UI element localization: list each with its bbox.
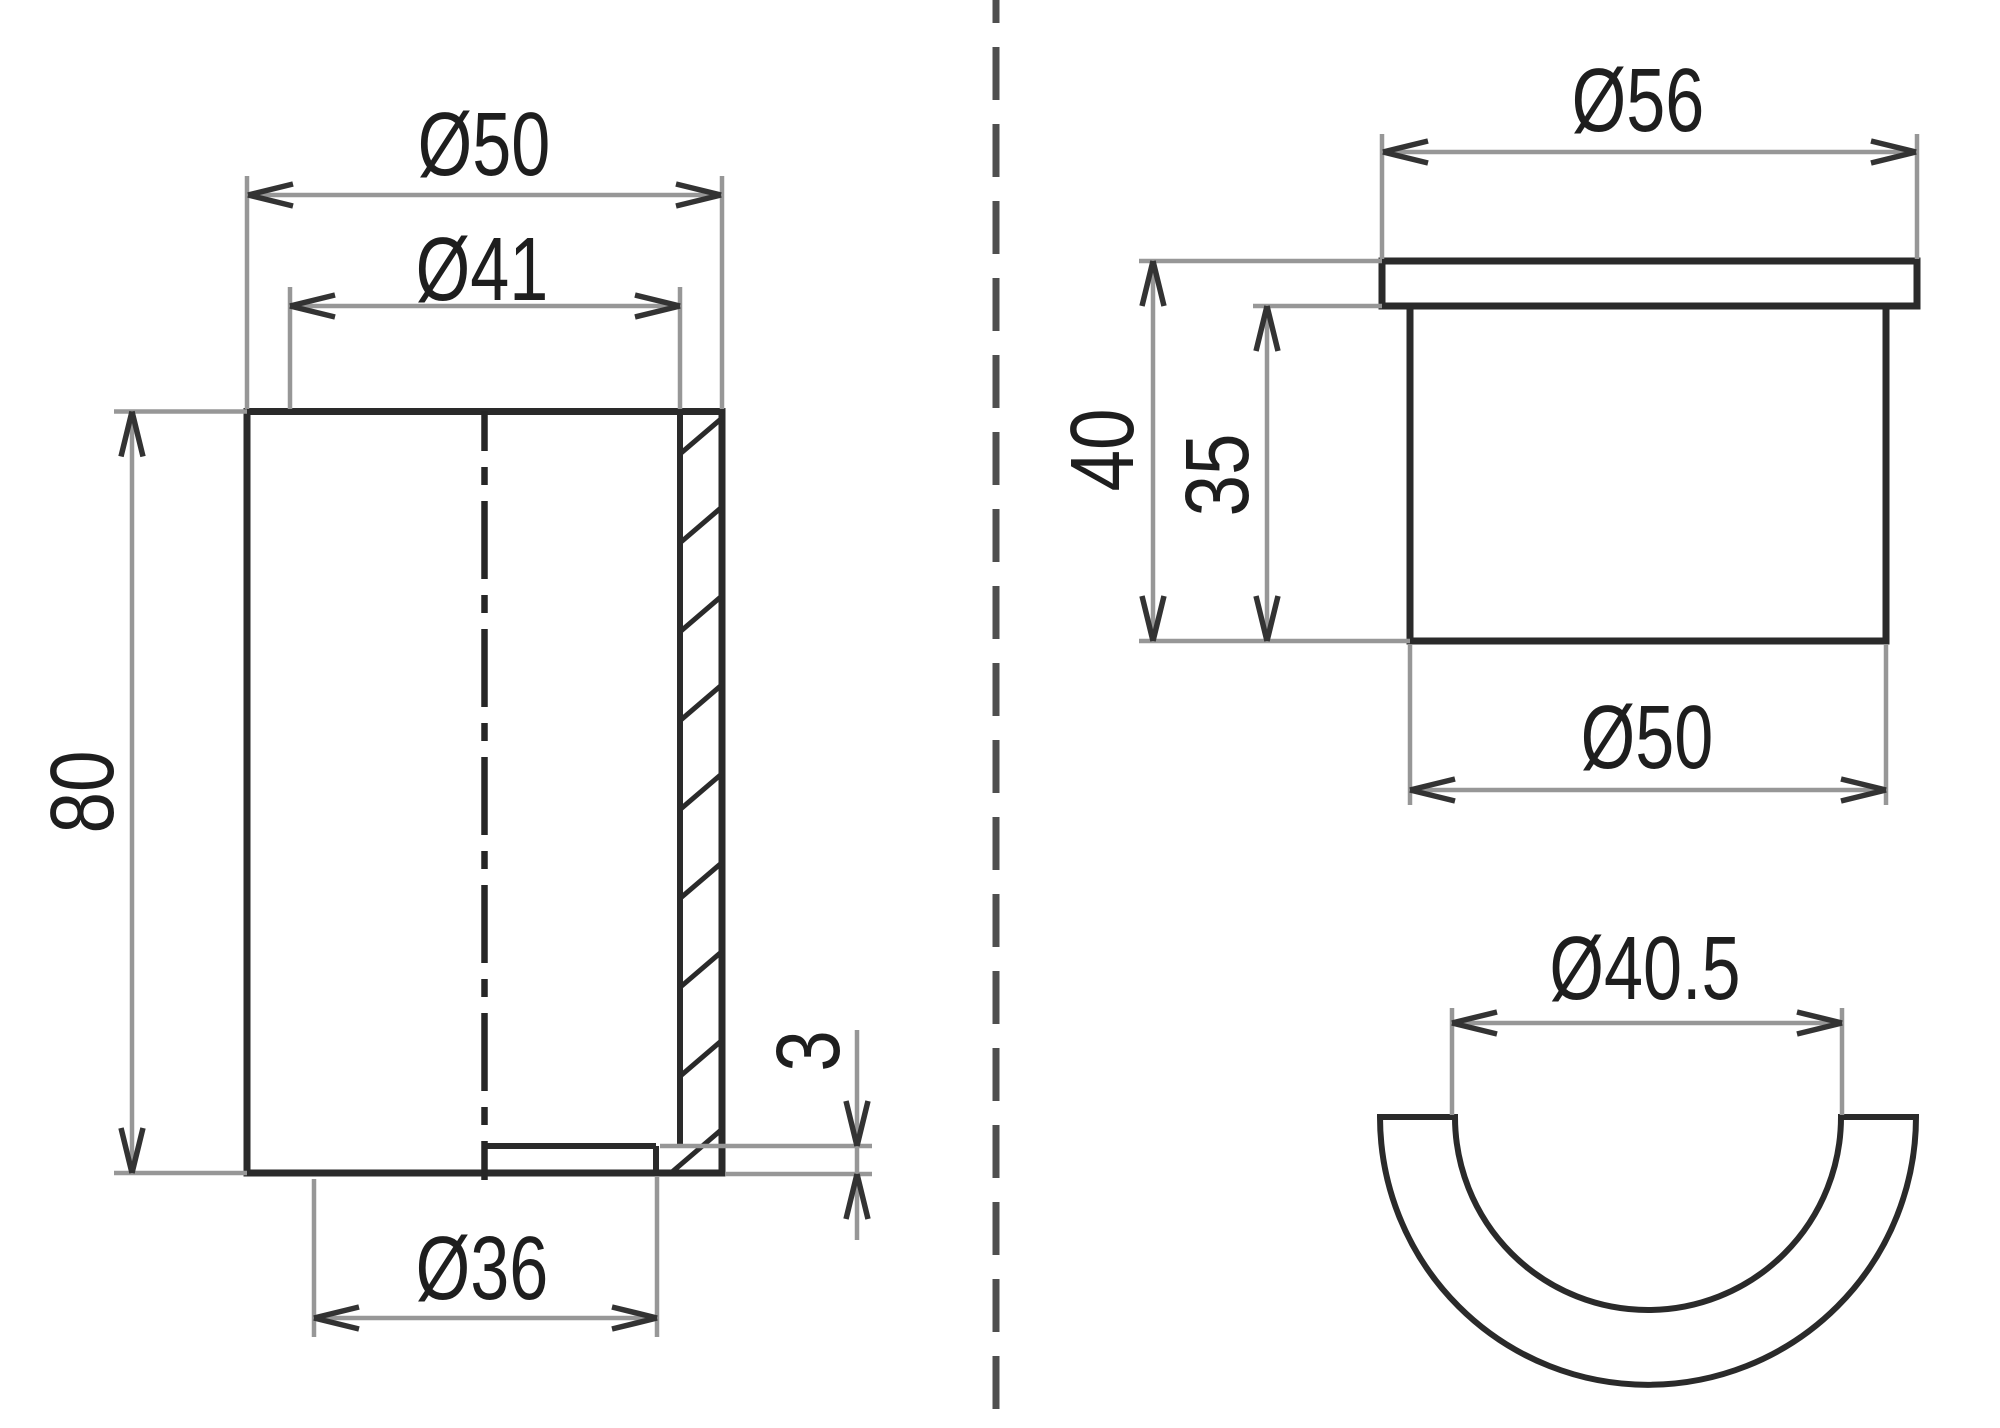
svg-text:80: 80 [31, 750, 132, 833]
dimension Ø56 [1382, 134, 1917, 259]
svg-text:35: 35 [1166, 433, 1267, 516]
dimension Ø40.5 (hole) [1452, 1008, 1842, 1115]
flange rectangle Ø56 [1382, 261, 1917, 306]
svg-text:Ø40.5: Ø40.5 [1549, 919, 1740, 1019]
dimension Ø36 (left view, bottom) [314, 1176, 657, 1337]
separator centerline (dashed) between views [993, 0, 1000, 1428]
svg-text:Ø36: Ø36 [416, 1219, 549, 1319]
svg-text:40: 40 [1051, 408, 1152, 491]
dimension 80 (left view, height) [114, 412, 247, 1174]
dimension 3 (bottom plate thickness) [660, 1030, 872, 1240]
half ring outline [1380, 1117, 1916, 1385]
dimension 35 (body height) [1253, 306, 1382, 641]
Ø36 hole edge (step vertical) [653, 1146, 659, 1173]
dimension Ø41 (left view) [290, 287, 680, 409]
part centerline (dash-dot) [481, 411, 488, 1180]
body rectangle Ø50 [1410, 306, 1886, 641]
dimension Ø50 (right view, body) [1410, 645, 1886, 805]
outline: outer rectangle of sleeve [247, 412, 722, 1174]
svg-text:Ø56: Ø56 [1572, 51, 1705, 151]
bore wall line (Ø41 inner wall, sectioned side) [677, 412, 683, 1147]
dimension 40 (cap overall height) [1139, 261, 1410, 641]
bottom plate top surface (step line) [485, 1143, 657, 1149]
svg-text:Ø50: Ø50 [1581, 688, 1714, 788]
dimension Ø50 (left view, top) [247, 176, 722, 409]
svg-text:3: 3 [757, 1030, 858, 1072]
svg-text:Ø50: Ø50 [418, 95, 551, 195]
svg-text:Ø41: Ø41 [416, 220, 549, 320]
section hatching of wall and bottom corner [652, 415, 726, 1190]
